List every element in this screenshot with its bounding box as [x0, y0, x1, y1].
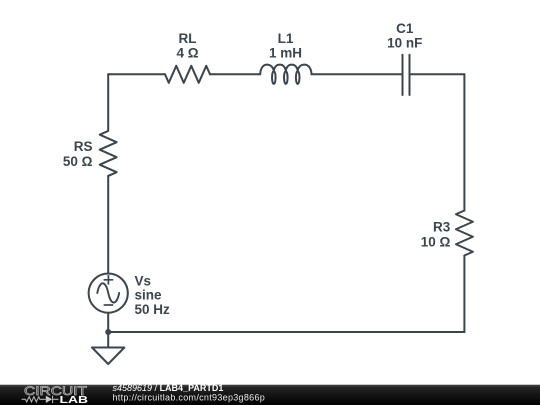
voltage source sine symbol	[97, 283, 119, 302]
voltage source plus sign	[104, 275, 114, 285]
logo diode arrow	[46, 396, 52, 403]
svg-text:R3: R3	[433, 220, 451, 235]
svg-text:C1: C1	[396, 21, 414, 36]
capacitor C1 plate right	[409, 55, 411, 95]
svg-text:LAB: LAB	[60, 394, 89, 405]
footer bar	[0, 385, 540, 405]
wire R3 to bottom-right corner	[463, 256, 465, 333]
node junction dot	[105, 329, 111, 335]
svg-text:10 Ω: 10 Ω	[421, 235, 451, 250]
logo diode bar	[53, 396, 59, 403]
wire Vs to ground node	[107, 313, 109, 348]
voltage source minus sign	[104, 304, 114, 306]
capacitor C1 plate left	[402, 55, 404, 95]
wire bottom	[108, 331, 464, 333]
wire top-left corner to RL	[108, 73, 165, 75]
wire left top corner down to RS	[107, 74, 109, 131]
svg-text:1 mH: 1 mH	[269, 46, 302, 61]
svg-text:http://circuitlab.com/cnt93ep3: http://circuitlab.com/cnt93ep3g866p	[113, 392, 266, 402]
resistor RS	[100, 131, 117, 176]
wire right side down to R3	[463, 74, 465, 210]
resistor RL	[165, 66, 210, 83]
svg-text:50 Ω: 50 Ω	[63, 154, 93, 169]
svg-text:RL: RL	[179, 31, 197, 46]
wire RS to Vs	[107, 176, 109, 274]
wire RL to L1	[210, 73, 260, 75]
inductor L1	[260, 65, 311, 84]
ground	[92, 348, 124, 365]
svg-text:L1: L1	[278, 31, 294, 46]
svg-text:4 Ω: 4 Ω	[176, 46, 198, 61]
svg-text:RS: RS	[74, 139, 93, 154]
svg-text:50 Hz: 50 Hz	[135, 302, 171, 317]
voltage source Vs circle	[89, 274, 128, 313]
logo wire and resistor zigzag	[22, 397, 46, 402]
svg-text:sine: sine	[135, 288, 163, 303]
resistor R3	[456, 211, 473, 256]
wire L1 to C1	[312, 73, 402, 75]
svg-text:Vs: Vs	[135, 274, 152, 289]
wire C1 to top-right corner	[411, 73, 465, 75]
svg-text:10 nF: 10 nF	[387, 36, 422, 51]
